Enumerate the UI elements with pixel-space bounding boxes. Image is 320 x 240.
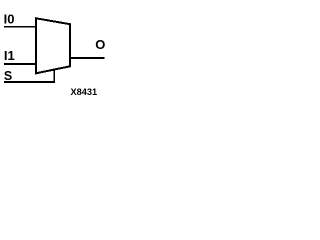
- svg-text:X8431: X8431: [71, 87, 98, 97]
- svg-text:O: O: [95, 37, 105, 52]
- svg-text:I1: I1: [4, 48, 15, 63]
- svg-text:S: S: [4, 69, 12, 83]
- svg-text:I0: I0: [4, 12, 15, 27]
